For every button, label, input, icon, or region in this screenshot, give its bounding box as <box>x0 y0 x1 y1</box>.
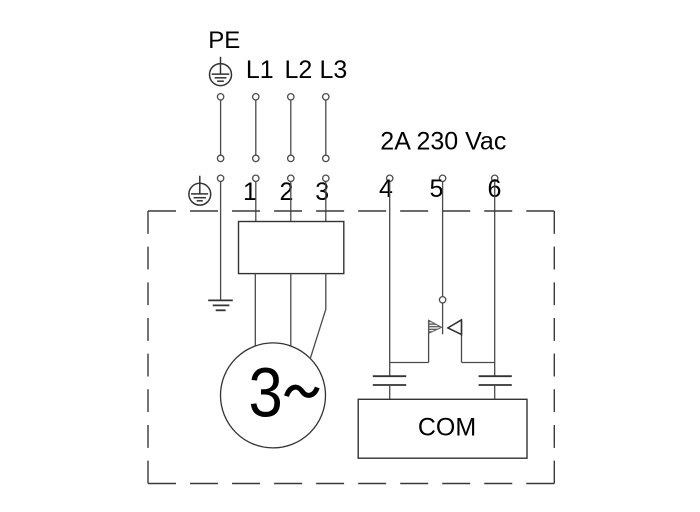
incoming PE conductor (circles + wire) <box>217 94 223 162</box>
wire branch 4 to left pole <box>390 362 429 364</box>
enclosure dashed border bottom <box>148 483 554 485</box>
terminal 1 circle <box>253 175 259 181</box>
terminal 4 circle <box>387 175 393 181</box>
wire terminal 5 down to node <box>442 182 444 297</box>
svg-text:PE: PE <box>208 27 240 54</box>
wire terminal 3 to box <box>325 182 327 222</box>
COM box <box>358 399 527 458</box>
terminal 5 circle <box>439 175 445 181</box>
contact right pole <box>461 320 463 362</box>
svg-text:L1: L1 <box>246 56 274 84</box>
contact left flag (hatched) <box>429 320 442 333</box>
enclosure dashed border right <box>553 211 555 484</box>
incoming L3 conductor <box>323 94 329 162</box>
capacitor C1 plates <box>373 376 406 385</box>
incoming L2 conductor <box>288 94 294 162</box>
motor label tilde <box>287 387 318 396</box>
svg-text:COM: COM <box>418 414 476 442</box>
wire terminal 1 to box <box>255 182 257 222</box>
wire box to motor W (bent) <box>311 274 326 358</box>
contact right flag (open) <box>448 320 462 335</box>
terminal box <box>239 222 344 274</box>
earth symbol E2 (inside enclosure) <box>189 176 211 205</box>
wire PE terminal to ground <box>220 182 222 301</box>
ground symbol <box>208 300 233 310</box>
wire C2 to COM box <box>494 385 496 399</box>
incoming L1 conductor <box>253 94 259 162</box>
capacitor C2 plates <box>479 376 512 385</box>
wire terminal 6 down <box>494 182 496 377</box>
terminal 6 circle <box>492 175 498 181</box>
wire branch right pole to 6 <box>462 362 495 364</box>
svg-text:L3: L3 <box>320 56 348 84</box>
wire node to contact tip <box>442 303 444 334</box>
svg-text:1: 1 <box>243 178 257 206</box>
earth symbol E1 (protective earth, top) <box>210 57 232 86</box>
svg-text:L2: L2 <box>285 56 313 84</box>
terminal 2 circle <box>288 175 294 181</box>
node circle on wire 5 <box>439 297 445 303</box>
svg-text:3: 3 <box>248 353 282 432</box>
wire box to motor U <box>254 274 256 346</box>
wire terminal 4 down <box>389 182 391 377</box>
svg-text:3: 3 <box>315 178 329 206</box>
wire C1 to COM box <box>389 385 391 399</box>
contact left pole <box>428 320 430 362</box>
svg-text:4: 4 <box>379 175 393 203</box>
svg-text:2A 230 Vac: 2A 230 Vac <box>380 127 506 155</box>
svg-text:5: 5 <box>430 175 444 203</box>
motor M1 circle <box>221 343 326 448</box>
enclosure dashed border left <box>147 211 149 484</box>
wire box to motor V <box>290 274 292 347</box>
terminal PE circle <box>217 175 223 181</box>
wire terminal 2 to box <box>290 182 292 222</box>
enclosure dashed border top <box>148 210 554 212</box>
terminal 3 circle <box>323 175 329 181</box>
